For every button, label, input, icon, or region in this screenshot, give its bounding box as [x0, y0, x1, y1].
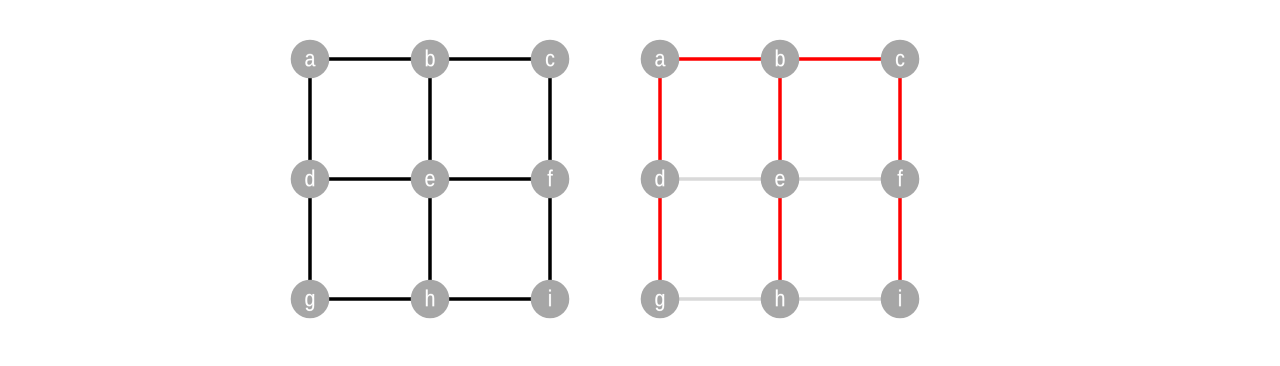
wire edge a-d	[308, 59, 312, 179]
node c right	[881, 40, 920, 79]
wire edge f-i	[548, 179, 552, 299]
wire edge c-f red	[898, 59, 902, 179]
right graph: non-tree light gray edges	[660, 179, 900, 299]
node a right	[641, 40, 680, 79]
left graph labels	[305, 50, 554, 311]
node c left	[531, 40, 570, 79]
label a right	[655, 54, 665, 67]
label h left	[426, 290, 434, 307]
wire edge h-i gray	[780, 297, 900, 301]
wire edge d-g red	[658, 179, 662, 299]
wire edge e-h	[428, 179, 432, 299]
label d left	[305, 170, 314, 187]
label b left	[426, 50, 435, 67]
left graph nodes	[291, 40, 570, 319]
label e left	[425, 174, 434, 187]
wire edge d-e	[310, 177, 430, 181]
right graph nodes	[641, 40, 920, 319]
node i left	[531, 280, 570, 319]
label f left	[548, 170, 553, 187]
node e right	[761, 160, 800, 199]
wire edge e-h red	[778, 179, 782, 299]
label h right	[776, 290, 784, 307]
node b left	[411, 40, 450, 79]
node f left	[531, 160, 570, 199]
node a left	[291, 40, 330, 79]
wire edge g-h	[310, 297, 430, 301]
wire edge h-i	[430, 297, 550, 301]
left graph: black grid edges	[310, 59, 550, 299]
node g left	[291, 280, 330, 319]
wire edge e-f	[430, 177, 550, 181]
node g right	[641, 280, 680, 319]
wire edge b-c	[430, 57, 550, 61]
wire edge b-c red	[780, 57, 900, 61]
node e left	[411, 160, 450, 199]
label i right	[899, 290, 901, 307]
label b right	[776, 50, 785, 67]
wire edge b-e	[428, 59, 432, 179]
wire edge e-f gray	[780, 177, 900, 181]
wire edge d-e gray	[660, 177, 780, 181]
wire edge f-i red	[898, 179, 902, 299]
wire edge a-b	[310, 57, 430, 61]
wire edge b-e red	[778, 59, 782, 179]
wire edge a-b red	[660, 57, 780, 61]
right graph: red tree edges	[660, 59, 900, 299]
node d right	[641, 160, 680, 199]
node h right	[761, 280, 800, 319]
label i left	[549, 290, 551, 307]
wire edge a-d red	[658, 59, 662, 179]
label a left	[305, 54, 315, 67]
label d right	[655, 170, 664, 187]
label g right	[655, 294, 664, 311]
right graph labels	[655, 50, 904, 311]
label c right	[896, 54, 904, 67]
node f right	[881, 160, 920, 199]
wire edge d-g	[308, 179, 312, 299]
label g left	[305, 294, 314, 311]
node h left	[411, 280, 450, 319]
label f right	[898, 170, 903, 187]
node i right	[881, 280, 920, 319]
wire edge g-h gray	[660, 297, 780, 301]
node d left	[291, 160, 330, 199]
label e right	[775, 174, 784, 187]
label c left	[546, 54, 554, 67]
wire edge c-f	[548, 59, 552, 179]
node b right	[761, 40, 800, 79]
